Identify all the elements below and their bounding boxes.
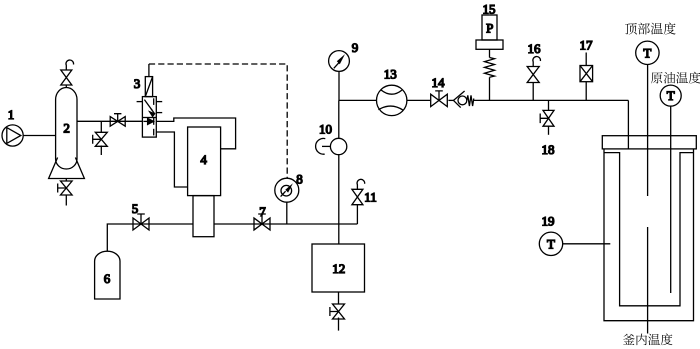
vent hook on top valve <box>66 60 74 70</box>
svg-text:T: T <box>643 45 651 60</box>
valve 14 <box>431 94 448 106</box>
svg-text:3: 3 <box>134 76 141 91</box>
valve on vessel2 top <box>65 85 67 87</box>
pump 1 <box>2 125 23 146</box>
valve 3 upper ports <box>137 101 143 103</box>
svg-text:8: 8 <box>296 172 303 187</box>
drain valve under vessel 2 <box>65 179 67 182</box>
vessel 12 <box>312 244 365 292</box>
svg-text:13: 13 <box>384 67 397 82</box>
valve 11 <box>356 205 358 224</box>
svg-text:4: 4 <box>200 152 207 167</box>
svg-text:T: T <box>667 88 675 103</box>
svg-text:2: 2 <box>63 121 70 136</box>
sampler 10 <box>330 138 346 154</box>
pump 4 cylinder <box>188 127 221 196</box>
kettle outer wall <box>604 149 694 321</box>
branch drain valve <box>100 121 102 132</box>
svg-text:7: 7 <box>259 204 266 219</box>
gas cylinder 6 <box>95 251 120 299</box>
solenoid coil of valve 3 <box>145 77 152 97</box>
wire cylinder6 to piston <box>107 224 193 252</box>
svg-text:18: 18 <box>542 142 555 157</box>
regulator 15 body <box>482 15 497 40</box>
bottom probe <box>647 227 649 334</box>
wire sensor19 to kettle <box>563 243 611 245</box>
valve 3 lower cell arrow <box>143 120 148 122</box>
label oil temperature <box>651 72 663 83</box>
wire vessel2 outlet <box>77 120 142 122</box>
svg-text:16: 16 <box>528 41 542 56</box>
temperature sensor 19 <box>539 232 562 255</box>
wire column to flowmeter <box>339 99 377 101</box>
flowmeter 13 <box>377 85 407 115</box>
gauge 8 <box>275 178 299 202</box>
svg-text:11: 11 <box>364 190 377 205</box>
pump 4 piston <box>193 196 214 237</box>
svg-text:19: 19 <box>542 214 555 229</box>
svg-text:5: 5 <box>132 201 139 216</box>
vessel 2 <box>56 88 77 170</box>
wire center column <box>338 100 340 138</box>
hand valve on outlet <box>110 117 125 127</box>
svg-text:6: 6 <box>104 271 111 286</box>
valve 18 <box>548 100 550 110</box>
svg-text:15: 15 <box>483 1 496 16</box>
svg-text:1: 1 <box>8 107 15 122</box>
drain valve under 12 <box>338 292 340 305</box>
svg-text:9: 9 <box>352 40 359 55</box>
check valve <box>448 99 453 101</box>
svg-text:T: T <box>547 236 555 251</box>
svg-text:12: 12 <box>332 261 345 276</box>
spring after check valve <box>467 95 474 106</box>
pump 4 upper housing <box>156 118 235 149</box>
top thermocouple tube <box>647 65 649 197</box>
svg-text:P: P <box>486 21 493 36</box>
pump 4 side line <box>156 132 187 187</box>
valve 3 upper cell arrow <box>144 100 152 111</box>
wire piston to valve7 to junctions <box>214 223 357 225</box>
valve 5 <box>133 218 149 230</box>
skirt of vessel 2 <box>49 158 85 179</box>
dashed pilot line <box>148 64 150 77</box>
temperature sensor top <box>636 41 659 64</box>
kettle inner wall <box>604 153 694 306</box>
kettle lid <box>602 136 696 149</box>
svg-text:17: 17 <box>580 38 594 53</box>
valve 17 <box>585 53 587 66</box>
valve 3 body <box>142 97 156 138</box>
wire flowmeter to valve14 <box>407 99 430 101</box>
svg-text:14: 14 <box>432 75 446 90</box>
kettle feed pipe <box>627 100 629 148</box>
valve 7 <box>254 218 270 230</box>
temperature sensor oil <box>660 85 681 106</box>
valve 16 <box>532 83 534 101</box>
oil thermocouple tube <box>670 106 672 293</box>
wire pump1 to vessel2 <box>23 135 55 137</box>
svg-text:10: 10 <box>319 122 332 137</box>
wire check valve to kettle <box>474 99 629 101</box>
label kettle temperature <box>623 334 635 345</box>
regulator 15 spring <box>489 49 491 57</box>
label top temperature <box>625 23 637 35</box>
gauge 9 <box>329 51 350 72</box>
